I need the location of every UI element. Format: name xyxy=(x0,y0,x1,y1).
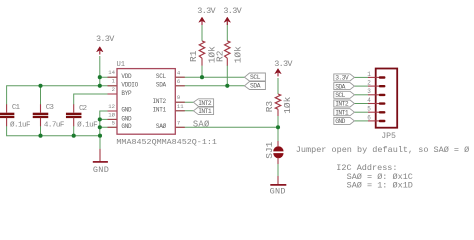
svg-text:JP5: JP5 xyxy=(381,132,396,141)
svg-text:INT2: INT2 xyxy=(335,101,349,108)
supply 3.3V arrow P2 (R1) xyxy=(197,6,216,25)
wire R2 top xyxy=(226,22,228,41)
svg-text:GND: GND xyxy=(121,123,132,130)
svg-text:5: 5 xyxy=(367,106,371,113)
pin stub U1 right y=85.8 xyxy=(175,85,185,87)
wire pin14 VDD xyxy=(100,76,117,78)
wire 3.3V column xyxy=(99,56,101,86)
svg-text:7: 7 xyxy=(177,119,180,126)
pad 3 xyxy=(368,94,380,96)
svg-text:GND: GND xyxy=(121,107,132,114)
pad 1 xyxy=(368,76,380,78)
svg-text:C2: C2 xyxy=(79,105,88,113)
svg-text:SDA: SDA xyxy=(156,82,167,89)
svg-text:1Øk: 1Øk xyxy=(232,46,243,63)
svg-text:9: 9 xyxy=(177,94,180,101)
junction node rail C3 xyxy=(38,134,42,138)
pad 6 xyxy=(368,120,380,122)
junction node VDD/3.3V xyxy=(98,75,102,79)
wire SCL net xyxy=(175,76,244,78)
svg-text:SCL: SCL xyxy=(335,92,345,99)
pin stub U1 left y=85.8 xyxy=(108,85,118,87)
pin stub U1 right y=102.2 xyxy=(175,101,185,103)
net flag JP5 SDA xyxy=(334,83,355,91)
svg-text:Jumper open by default, so SAØ: Jumper open by default, so SAØ = Ø xyxy=(296,145,469,155)
svg-text:INT1: INT1 xyxy=(198,108,212,115)
supply 3.3V arrow P1 xyxy=(96,34,115,55)
svg-text:SAØ: SAØ xyxy=(193,120,210,130)
svg-text:1: 1 xyxy=(112,78,116,85)
svg-text:R2: R2 xyxy=(215,50,226,62)
svg-text:INT1: INT1 xyxy=(153,107,167,114)
ground GND2 (SJ1) xyxy=(270,176,287,197)
wire R1 top xyxy=(201,22,203,41)
pin stub U1 right y=77.2 xyxy=(175,76,185,78)
svg-text:SDA: SDA xyxy=(250,83,261,90)
wire SDA net xyxy=(175,85,244,87)
svg-text:4: 4 xyxy=(177,69,181,76)
junction node R1/SCL xyxy=(200,75,204,79)
pin stub U1 left y=127.3 xyxy=(108,126,118,128)
svg-text:C1: C1 xyxy=(12,104,21,112)
svg-text:INT2: INT2 xyxy=(153,98,167,105)
svg-text:11: 11 xyxy=(177,103,184,110)
pad 5 xyxy=(368,111,380,113)
capacitor C3 xyxy=(33,104,65,129)
wire JP5 pin4 xyxy=(354,103,368,105)
svg-text:3.3V: 3.3V xyxy=(197,6,216,16)
wire INT1 xyxy=(175,110,193,112)
svg-text:3.3V: 3.3V xyxy=(274,59,293,69)
svg-text:GND: GND xyxy=(93,165,109,175)
junction node GND pin10 xyxy=(98,117,102,121)
svg-text:Ø.1uF: Ø.1uF xyxy=(77,120,98,129)
wire R3 bottom xyxy=(277,116,279,128)
svg-text:3.3V: 3.3V xyxy=(335,75,349,82)
svg-text:R3: R3 xyxy=(264,101,275,113)
pin stub U1 right y=127.3 xyxy=(175,126,185,128)
solder jumper SJ1 xyxy=(264,141,284,164)
wire INT2 xyxy=(175,101,193,103)
wire GND pin10 xyxy=(100,118,117,120)
pin stub U1 right y=110.8 xyxy=(175,110,185,112)
junction node GND pin5 xyxy=(98,125,102,129)
svg-text:4.7uF: 4.7uF xyxy=(44,121,65,129)
net flag INT1 xyxy=(193,107,213,115)
svg-text:U1: U1 xyxy=(117,61,126,69)
wire R1 bottom xyxy=(201,65,203,77)
pin stub U1 left y=111.0 xyxy=(108,110,118,112)
svg-text:BYP: BYP xyxy=(121,90,132,97)
wire VDDIO rail y=85.8 xyxy=(7,86,117,105)
svg-text:3.3V: 3.3V xyxy=(223,6,242,16)
pin stub U1 left y=119.4 xyxy=(108,118,118,120)
svg-text:C3: C3 xyxy=(46,104,55,112)
svg-text:SAØ = 1: Øx1D: SAØ = 1: Øx1D xyxy=(347,180,413,190)
ground GND1 (caps) xyxy=(93,149,109,175)
net flag JP5 3.3V xyxy=(334,74,355,82)
svg-text:3.3V: 3.3V xyxy=(96,34,115,44)
svg-text:SAØ: SAØ xyxy=(156,123,167,130)
net flag INT2 xyxy=(193,99,213,107)
wire SJ1 to GND xyxy=(277,164,279,177)
svg-text:SCL: SCL xyxy=(250,74,261,81)
junction node R2/SDA xyxy=(225,84,229,88)
svg-text:5: 5 xyxy=(112,119,115,126)
wire JP5 pin6 xyxy=(354,120,368,122)
wire cap bottom rail xyxy=(7,126,101,136)
wire BYP to C2 xyxy=(74,94,117,105)
svg-text:SJ1: SJ1 xyxy=(264,141,275,158)
svg-text:3: 3 xyxy=(367,88,371,95)
junction node C3 top xyxy=(38,84,42,88)
supply 3.3V arrow P4 (R3) xyxy=(274,59,293,76)
pin stub U1 left y=77.2 xyxy=(108,76,118,78)
svg-text:6: 6 xyxy=(367,114,371,121)
resistor R1 xyxy=(188,41,218,66)
junction node rail GND xyxy=(98,134,102,138)
junction node rail C2 xyxy=(72,134,76,138)
wire SA0 net xyxy=(175,126,278,128)
svg-text:SDA: SDA xyxy=(335,83,345,90)
wire GND1 stem xyxy=(99,136,101,150)
svg-text:INT2: INT2 xyxy=(198,100,212,107)
wire C3 bottom xyxy=(40,126,42,136)
svg-text:2: 2 xyxy=(112,86,115,93)
wire JP5 pin1 xyxy=(354,76,368,78)
capacitor C1 xyxy=(0,104,31,129)
capacitor C2 xyxy=(66,104,98,129)
wire GND pin5 xyxy=(100,126,117,128)
svg-text:1Ø: 1Ø xyxy=(108,111,115,118)
wire C3 top xyxy=(40,86,42,105)
IC U1 MMA8452Q xyxy=(108,61,217,147)
junction node VDDIO/3.3V xyxy=(98,84,102,88)
net flag JP5 GND xyxy=(334,117,355,125)
wire GND pin12 xyxy=(100,111,117,136)
svg-text:SCL: SCL xyxy=(156,73,167,80)
junction node SA0/R3 xyxy=(276,125,280,129)
net flag SDA xyxy=(245,82,266,90)
supply 3.3V arrow P3 (R2) xyxy=(223,6,242,25)
net flag JP5 INT1 xyxy=(334,109,355,117)
wire R2 bottom xyxy=(226,65,228,86)
pad 4 xyxy=(368,103,380,105)
wire JP5 pin5 xyxy=(354,111,368,113)
svg-text:MMA8452QMMA8452Q-1:1: MMA8452QMMA8452Q-1:1 xyxy=(116,139,216,147)
svg-text:1: 1 xyxy=(367,71,371,78)
net flag JP5 INT2 xyxy=(334,100,355,108)
svg-text:14: 14 xyxy=(108,69,115,76)
svg-text:1Øk: 1Øk xyxy=(282,96,293,113)
pin stub U1 left y=94.0 xyxy=(108,93,118,95)
wire SA0 to SJ1 xyxy=(277,127,279,141)
wire JP5 pin2 xyxy=(354,85,368,87)
resistor R3 xyxy=(264,94,293,116)
svg-text:6: 6 xyxy=(177,78,180,85)
svg-text:GND: GND xyxy=(121,115,132,122)
net flag JP5 SCL xyxy=(334,91,355,99)
svg-text:4: 4 xyxy=(367,97,371,104)
wire C2 bottom xyxy=(73,126,75,136)
svg-text:2: 2 xyxy=(367,80,371,87)
svg-text:12: 12 xyxy=(108,103,115,110)
resistor R2 xyxy=(215,41,244,66)
svg-text:R1: R1 xyxy=(188,50,199,62)
svg-text:Ø.1uF: Ø.1uF xyxy=(10,120,31,129)
svg-text:GND: GND xyxy=(270,187,286,197)
svg-text:VDDIO: VDDIO xyxy=(121,82,138,89)
wire R3 top xyxy=(277,78,279,94)
pad 2 xyxy=(368,85,380,87)
connector JP5 xyxy=(367,69,397,141)
net flag SCL xyxy=(245,73,266,81)
wire JP5 pin3 xyxy=(354,94,368,96)
svg-text:INT1: INT1 xyxy=(335,109,349,116)
svg-text:VDD: VDD xyxy=(121,73,132,80)
svg-text:GND: GND xyxy=(335,118,345,125)
